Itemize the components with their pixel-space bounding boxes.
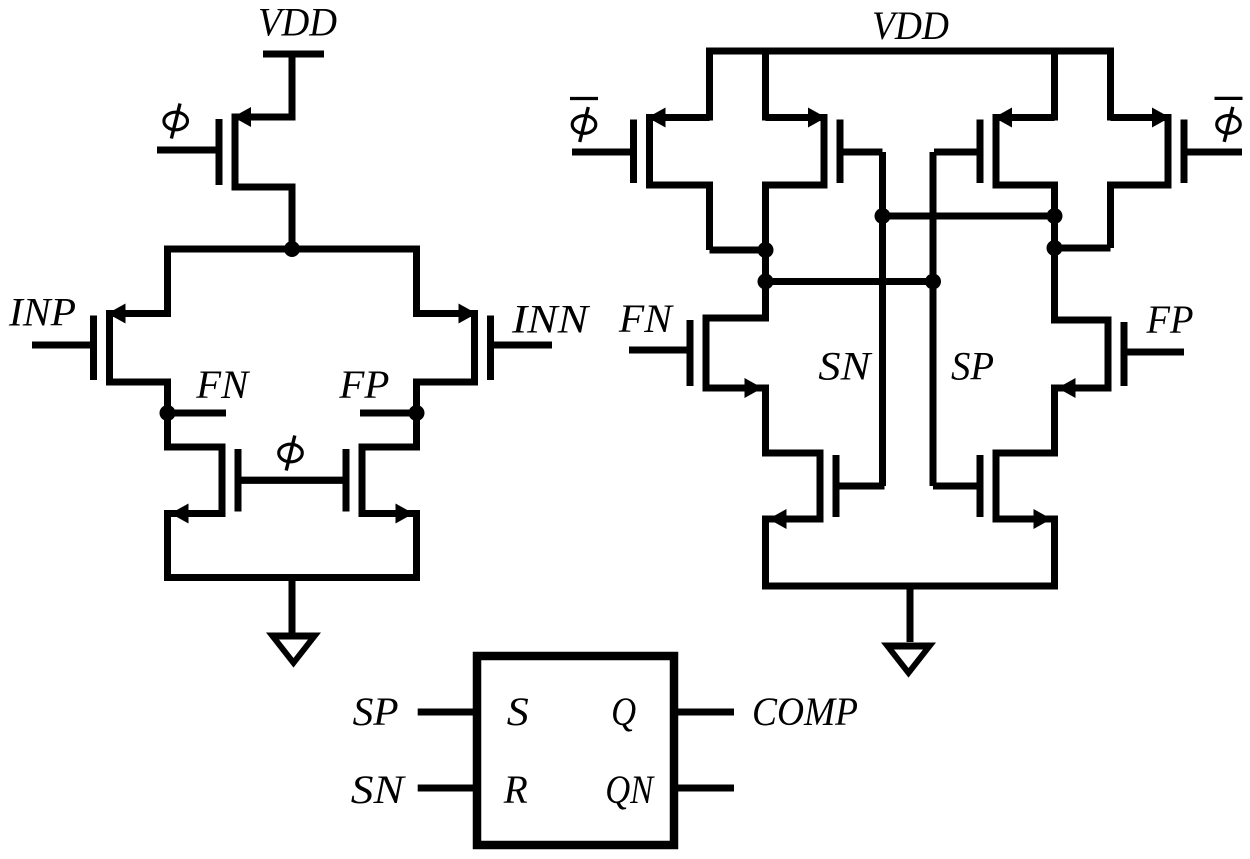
svg-text:Q: Q (611, 689, 636, 734)
svg-text:S: S (507, 689, 529, 734)
svg-text:SP: SP (353, 689, 399, 734)
svg-text:FN: FN (618, 296, 674, 341)
svg-text:FP: FP (1146, 297, 1194, 342)
svg-text:INP: INP (8, 290, 76, 335)
svg-text:FP: FP (338, 362, 389, 407)
svg-text:VDD: VDD (872, 3, 949, 48)
svg-text:FN: FN (195, 362, 250, 407)
svg-text:VDD: VDD (258, 0, 337, 45)
svg-text:INN: INN (511, 297, 591, 342)
svg-text:QN: QN (605, 767, 655, 812)
svg-text:SP: SP (951, 344, 994, 389)
svg-text:SN: SN (351, 767, 407, 812)
svg-text:COMP: COMP (752, 689, 858, 734)
svg-text:R: R (503, 767, 528, 812)
svg-text:SN: SN (818, 344, 873, 389)
